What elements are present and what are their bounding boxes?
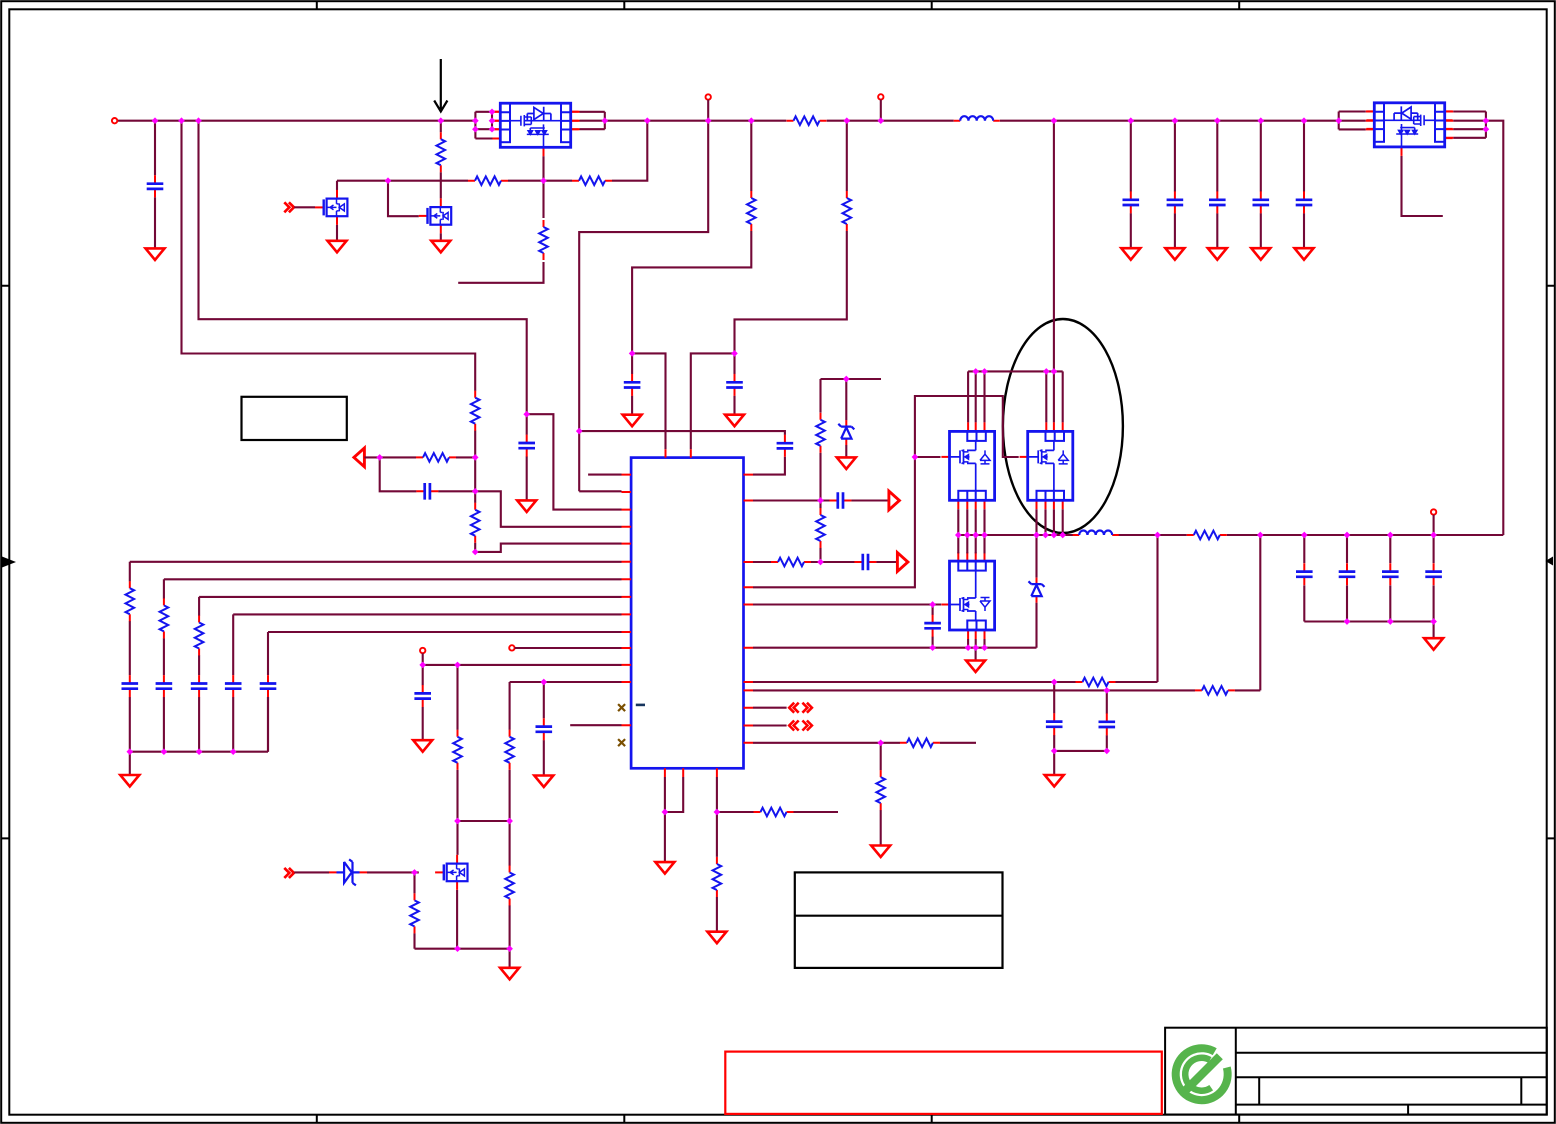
ground C-tp4: [413, 740, 432, 752]
left border centre arrow: [2, 557, 16, 568]
wire QB top pin: [1053, 371, 1055, 422]
wire VIN rail: [117, 120, 475, 122]
wire TP2 stub: [880, 100, 882, 121]
wire Q2 source: [440, 233, 442, 240]
wire C-in column: [154, 121, 156, 249]
resistor R-457a: [453, 730, 462, 770]
output port P3: [889, 491, 900, 510]
wire QA bottom pin: [966, 509, 968, 535]
offpage connector OP1: [789, 703, 812, 713]
wire bank net 5: [268, 631, 622, 633]
resistor R-fb1v: [471, 391, 480, 431]
cursor arrow: [434, 59, 447, 112]
wire rail cap1: [1130, 121, 1132, 248]
wire SW bus: [958, 534, 1503, 536]
ground R-742: [871, 846, 890, 858]
zener D3: [1029, 578, 1045, 603]
wire QB top pin: [1062, 371, 1064, 422]
ground C-r1: [1121, 248, 1140, 260]
IC U3 hidden-text dash: [636, 704, 645, 707]
wire QC top pin: [975, 535, 977, 553]
wire rail cap2: [1174, 121, 1176, 248]
wire bank drop 1: [129, 562, 131, 752]
capacitor C-o2: [1339, 563, 1356, 585]
resistor R-716v: [713, 857, 722, 897]
zener D1: [329, 859, 367, 885]
input port P1 (left): [354, 448, 365, 467]
wire IC pin15 stub net: [570, 724, 621, 726]
wire chain 457 drop: [456, 665, 458, 855]
wire BB branch IC top1: [632, 353, 665, 449]
wire Q3 gate pulldown: [413, 872, 415, 948]
resistor R-g2: [572, 176, 612, 185]
wire outcap 1: [1303, 535, 1305, 622]
wire QB bottom pin: [1035, 509, 1037, 535]
capacitor C-b3: [191, 675, 208, 697]
wire bank drop 2: [163, 579, 165, 751]
ground D2: [837, 457, 856, 469]
wire Q2 gate branch: [388, 181, 419, 217]
dual MOSFET package U1: [492, 103, 578, 156]
wire TP1 stub: [707, 100, 709, 121]
ground C-1054: [1045, 775, 1064, 787]
note box A: [242, 397, 347, 440]
wire c1054 drop: [1053, 682, 1055, 775]
wire pgnd bus y648: [753, 535, 1037, 660]
wire QB top pin: [1045, 371, 1047, 422]
capacitor C-b5: [260, 675, 277, 697]
ground C-r2: [1165, 248, 1184, 260]
wire chain 509 net: [510, 682, 622, 968]
wire outcap 4: [1433, 535, 1435, 622]
terminal TP2: [878, 94, 883, 99]
ground outcaps: [1424, 638, 1443, 650]
wire P1 lower branch: [380, 457, 476, 491]
capacitor C-1054: [1046, 713, 1063, 735]
wire QA bottom pin: [983, 509, 985, 535]
ground bank: [120, 775, 139, 787]
capacitor C-b1: [122, 675, 139, 697]
resistor R-820a: [816, 508, 825, 548]
resistor R-sw: [1187, 531, 1227, 540]
wire VIN right drop: [1486, 121, 1503, 535]
ground Q2: [431, 241, 450, 253]
revision box (red): [725, 1052, 1162, 1114]
wire QC top pin: [957, 535, 959, 553]
wire CC branch IC top2: [691, 353, 735, 449]
wire bank bottom bus: [130, 697, 268, 775]
wire QA top pin: [967, 371, 969, 422]
sheet zone tick marks: [316, 1, 318, 1123]
wire loop U1 right pins: [604, 112, 606, 129]
resistor R-bb: [747, 191, 756, 231]
wire loop U2 left pins: [1338, 112, 1340, 130]
wire y379 net: [821, 379, 882, 457]
wire zener to gate: [367, 871, 419, 873]
dual MOSFET QB: [1020, 422, 1073, 509]
wire net FB1 (x181): [182, 121, 476, 458]
IC U3 top pin stubs: [666, 449, 691, 457]
wire loop U2 right pins: [1485, 112, 1487, 138]
wire QB bottom pin: [1053, 509, 1055, 535]
wire U2 gate pin: [1402, 156, 1443, 216]
wire pin 604 net: [753, 603, 941, 605]
input chevron Q1 gate: [284, 202, 294, 212]
ground C-cc1: [725, 415, 744, 427]
resistor R-ch475: [471, 503, 480, 543]
ground C-bb1: [623, 415, 642, 427]
wire rail cap4: [1260, 121, 1262, 248]
wire IC pin1 stub net: [588, 474, 621, 476]
transistor Q2: [419, 198, 451, 233]
capacitor C-r4: [1253, 191, 1270, 213]
wire net FB2 (x198): [199, 121, 527, 501]
wire fb 1157 drop: [1054, 535, 1157, 682]
resistor R-g1: [468, 176, 508, 185]
wire P1 net: [364, 456, 475, 458]
capacitor C-o3: [1382, 563, 1399, 585]
resistor R-742h: [900, 739, 940, 748]
resistor R-cc: [843, 191, 852, 231]
wire chain 475 mid: [474, 457, 476, 552]
wire pin 682 long: [753, 681, 1054, 683]
wire P2 to zener: [294, 871, 329, 873]
wire gate drive net: [753, 396, 1019, 587]
ground C-r5: [1295, 248, 1314, 260]
transistor Q1: [315, 190, 347, 225]
resistor R-fb2: [1195, 686, 1235, 695]
wire TP5 stub: [1433, 515, 1435, 535]
capacitor C-r1: [1123, 191, 1140, 213]
transistor Q3: [435, 855, 467, 890]
terminal TP3: [509, 645, 514, 650]
IC U3 body: [631, 458, 743, 769]
wire chain 820: [819, 453, 821, 562]
wire TP4 cap drop: [422, 665, 424, 740]
ground C-543: [534, 776, 553, 788]
title block: [1165, 1028, 1547, 1115]
capacitor C-932: [924, 615, 941, 637]
wire net AA: [579, 121, 708, 492]
resistor R-b2: [160, 598, 169, 638]
wire Q2 drain feed: [440, 121, 442, 199]
wire IC gnd pins: [665, 777, 683, 862]
wire VIN rail right: [1000, 120, 1339, 122]
ground C-fb2: [517, 500, 536, 512]
wire QA/QB top bus: [968, 370, 1063, 372]
capacitor C-500: [829, 492, 851, 509]
ground pgnd: [966, 661, 985, 673]
IC U3 right pin stubs: [744, 475, 754, 743]
wire QC top pin: [966, 535, 968, 553]
wire QA top pin: [975, 371, 977, 422]
input chevron P2: [284, 868, 294, 878]
wire outcap bottom bus: [1304, 622, 1433, 639]
wire cap543 drop: [543, 682, 545, 775]
wire pin 742 net: [753, 743, 976, 846]
ground Q1: [328, 241, 347, 253]
wire QB bottom pin: [1044, 509, 1046, 535]
wire rail cap5: [1303, 121, 1305, 248]
wire QA bottom pin: [975, 509, 977, 535]
wire pin 500 net: [753, 499, 889, 501]
wire bank net 1: [130, 561, 622, 563]
wire bank net 2: [164, 578, 622, 580]
wire bank drop 3: [198, 597, 200, 752]
wire net CC (846): [735, 121, 847, 415]
capacitor C-p1: [416, 483, 438, 500]
wire OP1: [753, 707, 787, 709]
wire bank drop 5: [267, 632, 269, 752]
capacitor C-b4: [225, 675, 242, 697]
wire gate line y181: [337, 121, 647, 190]
wire to IC pin5: [475, 544, 621, 552]
resistor R-Q2drain: [437, 132, 446, 172]
terminal TP1: [706, 94, 711, 99]
resistor R-509a: [505, 730, 514, 770]
resistor R-509b: [505, 866, 514, 906]
resistor R-rail: [787, 116, 827, 125]
wire rail cap3: [1216, 121, 1218, 248]
ground C-in: [146, 248, 165, 260]
wire y821 link: [458, 820, 510, 822]
wire to IC pin4: [475, 491, 621, 527]
output port P4: [897, 553, 908, 572]
resistor R-562: [771, 558, 811, 567]
capacitor C-o4: [1425, 563, 1442, 585]
wire pin 562 net: [753, 561, 897, 563]
wire QB bottom pin: [1062, 509, 1064, 535]
wire bank drop 4: [232, 614, 234, 751]
wire QC bottom pin: [983, 639, 985, 648]
resistor R-U1-source: [539, 220, 548, 260]
resistor R-q3g: [410, 893, 419, 933]
wire Q1 gate: [294, 206, 315, 208]
note box B: [795, 872, 1003, 968]
capacitor C-1106: [1099, 713, 1116, 735]
ground C-r4: [1251, 248, 1270, 260]
wire cap 932 drop: [932, 605, 934, 648]
wire Q3 source bus: [415, 890, 510, 949]
capacitor C-543: [536, 718, 553, 740]
capacitor C-o1: [1296, 563, 1313, 585]
resistor R-fb1: [1076, 678, 1116, 687]
wire pin 716 net: [717, 777, 838, 932]
capacitor C-in: [147, 175, 164, 197]
IC U3 bottom pin stubs: [665, 768, 717, 777]
IC U3 left pin stubs: [622, 475, 632, 726]
capacitor C-r3: [1209, 191, 1226, 213]
right border centre arrow: [1545, 557, 1553, 566]
wire outcap 3: [1389, 535, 1391, 622]
IC U3 no-connect X pin a: [618, 704, 625, 711]
offpage connector OP2: [789, 721, 812, 731]
capacitor C-562: [854, 554, 876, 571]
terminal TP5: [1431, 509, 1436, 514]
wire VIN to QA/QB bus: [1053, 121, 1055, 372]
dual MOSFET package U2: [1366, 103, 1452, 156]
wire TP3 to IC: [515, 647, 622, 649]
wire loop U1 left pins: [475, 112, 492, 139]
wire bank net 3: [199, 596, 621, 598]
wire net BB (751): [632, 121, 751, 415]
wire QA top pin: [983, 371, 985, 422]
resistor R-742v: [876, 770, 885, 810]
terminal TP6: [112, 118, 117, 123]
inductor L-out: [1073, 531, 1119, 536]
capacitor C-r2: [1167, 191, 1184, 213]
resistor R-820b: [816, 413, 825, 453]
zener D2: [838, 420, 854, 445]
ground IC: [655, 862, 674, 874]
capacitor C-fb2: [518, 435, 535, 457]
wire AA branch y431: [579, 431, 785, 475]
wire QA bottom pin: [957, 509, 959, 535]
capacitor C-cc1: [726, 374, 743, 396]
capacitor C-b2: [156, 675, 173, 697]
resistor R-b1: [126, 581, 135, 621]
wire QC top pin: [983, 535, 985, 553]
resistor R-b3: [195, 616, 204, 656]
wire bank net 4: [233, 613, 621, 615]
dual MOSFET QA: [941, 422, 994, 509]
capacitor C-bb1: [624, 374, 641, 396]
capacitor C-r5: [1296, 191, 1313, 213]
ground C-r3: [1208, 248, 1227, 260]
wire TP4 net: [423, 653, 622, 665]
resistor R-716h: [754, 808, 794, 817]
wire VIN rail mid: [605, 120, 954, 122]
resistor R-p1: [416, 453, 456, 462]
wire y750 link: [1054, 750, 1107, 752]
highlight ellipse: [1003, 319, 1123, 533]
wire c1106 drop: [1106, 690, 1108, 751]
wire outcap 2: [1346, 535, 1348, 622]
ground R-509: [500, 968, 519, 980]
logo: [1176, 1048, 1228, 1100]
wire pin 690 long: [753, 535, 1260, 690]
capacitor C-aa: [777, 435, 794, 457]
inductor L-rail: [954, 116, 1000, 121]
capacitor C-tp4: [414, 685, 431, 707]
terminal TP4: [420, 648, 425, 653]
wire U1 source pin: [458, 156, 543, 282]
IC U3 no-connect X pin b: [618, 739, 625, 746]
ground R-716: [707, 932, 726, 944]
wire Q1 source: [336, 225, 338, 241]
dual MOSFET QC: [941, 552, 994, 639]
wire FB2 branch to IC: [527, 414, 622, 509]
wire QC bottom pin: [975, 639, 977, 648]
wire QC bottom pin: [967, 639, 969, 648]
wire OP2: [753, 724, 787, 726]
